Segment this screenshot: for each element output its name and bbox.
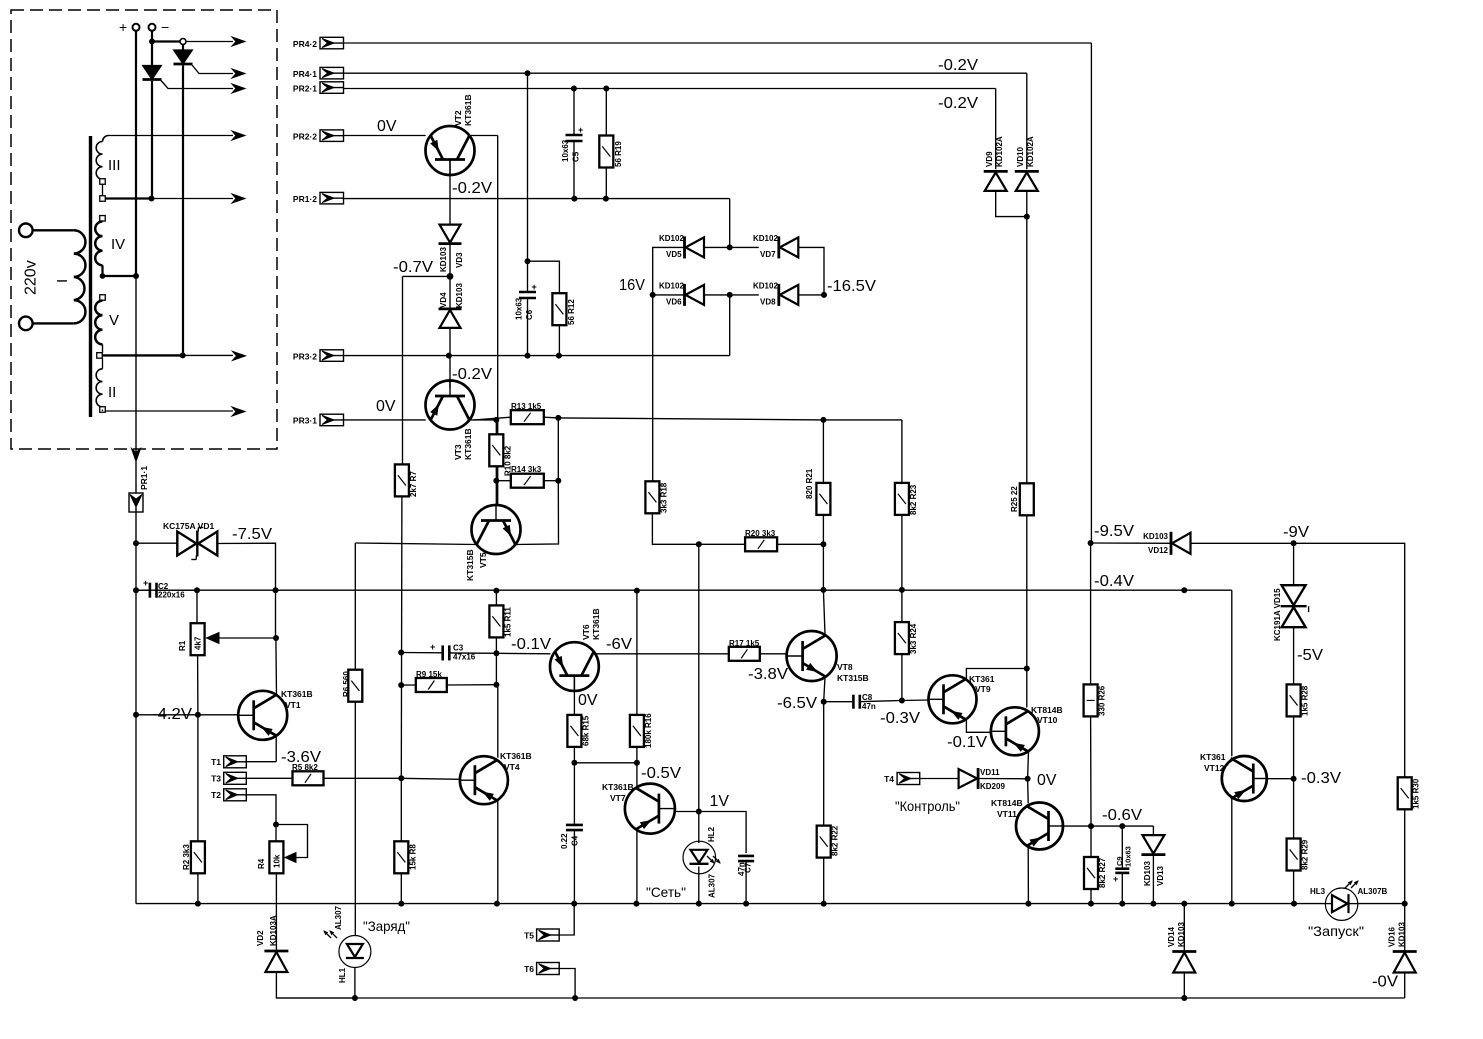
svg-text:KD102: KD102 xyxy=(659,234,684,243)
svg-text:PR1·1: PR1·1 xyxy=(139,466,149,490)
resistor R9 15k xyxy=(416,670,447,692)
svg-text:-0.2V: -0.2V xyxy=(452,180,492,197)
svg-text:KD103: KD103 xyxy=(1143,861,1152,886)
wire VT7 base right xyxy=(675,809,702,815)
main bus xyxy=(136,903,1326,905)
svg-text:AL307: AL307 xyxy=(334,905,343,930)
label Запуск xyxy=(1308,923,1364,939)
svg-text:KT361B: KT361B xyxy=(591,608,601,640)
minus terminal xyxy=(149,19,170,35)
svg-text:10k: 10k xyxy=(273,854,282,868)
diode on second rail xyxy=(174,45,193,65)
transistor VT9 KT361 xyxy=(929,674,995,723)
wire T5 xyxy=(559,904,574,935)
diode VD10 KD102A xyxy=(1015,136,1039,191)
bus dots xyxy=(133,587,1187,594)
svg-text:KT361: KT361 xyxy=(1200,752,1226,762)
wire R13R14 column xyxy=(557,418,559,481)
wire T2 wire xyxy=(246,795,279,828)
label -5V xyxy=(1297,647,1323,664)
svg-text:+: + xyxy=(430,642,435,652)
wire diode1 down xyxy=(151,81,153,199)
svg-text:0V: 0V xyxy=(377,118,397,135)
svg-text:IV: IV xyxy=(111,236,125,253)
svg-text:+: + xyxy=(143,578,148,588)
wire PR4:1 row xyxy=(344,70,1027,76)
svg-text:VD8: VD8 xyxy=(760,298,776,307)
winding IV xyxy=(95,216,105,276)
svg-text:4k7: 4k7 xyxy=(194,636,203,650)
wire VT11 base right row xyxy=(1063,823,1153,829)
svg-text:-6.5V: -6.5V xyxy=(777,695,817,712)
svg-text:KD102: KD102 xyxy=(753,234,778,243)
wire C4 column xyxy=(573,763,575,825)
label -3.6V xyxy=(281,749,321,766)
arrow into PR1:1 xyxy=(132,449,141,462)
svg-text:10x63: 10x63 xyxy=(561,139,570,162)
wire C8 row xyxy=(824,701,902,702)
winding III xyxy=(96,136,108,196)
svg-text:VT4: VT4 xyxy=(504,762,520,772)
label -0.2V VT2 xyxy=(452,180,492,197)
svg-text:8k2 R22: 8k2 R22 xyxy=(831,825,840,856)
wire HL2 column xyxy=(698,812,700,844)
transistor VT8 KT315B xyxy=(787,631,869,683)
svg-text:330 R26: 330 R26 xyxy=(1098,685,1107,716)
svg-text:"Запуск": "Запуск" xyxy=(1308,923,1364,939)
svg-text:VT5: VT5 xyxy=(478,552,488,568)
wire VD2 bottom corner xyxy=(276,972,355,998)
wire VD3 to node xyxy=(447,245,454,280)
label Сеть xyxy=(646,884,686,900)
connector T5 xyxy=(524,929,559,941)
wire row 420 corner R23 xyxy=(823,419,902,421)
svg-text:8k2 R23: 8k2 R23 xyxy=(909,484,918,515)
svg-text:-0.1V: -0.1V xyxy=(511,636,551,653)
wire -9V corner right xyxy=(1294,543,1405,777)
connector PR4:2 xyxy=(293,37,344,49)
svg-text:VD16: VD16 xyxy=(1388,926,1397,947)
svg-text:PR3·1: PR3·1 xyxy=(293,416,317,426)
wire VD5 anode branch xyxy=(653,247,685,295)
resistor R15 68k xyxy=(567,715,590,766)
wire PR1:2 corner down xyxy=(729,199,731,248)
wire R18R20 to VT7base column xyxy=(698,544,700,811)
wire winding III top to PR2:2 arrow xyxy=(109,131,246,140)
svg-text:-0.6V: -0.6V xyxy=(1102,807,1142,824)
svg-text:VD9: VD9 xyxy=(985,151,994,167)
wire VT2 collector column xyxy=(497,136,499,506)
wire C2 row xyxy=(136,589,197,591)
label -0.1V VT10 xyxy=(947,734,987,751)
transistor VT5 KT315B xyxy=(465,505,521,581)
svg-text:T1: T1 xyxy=(211,757,221,767)
diode VD16 KD103 xyxy=(1388,904,1417,973)
wire VD14 bottom xyxy=(1183,973,1185,999)
wire VT5 collector left xyxy=(355,543,477,545)
svg-text:1k5 R28: 1k5 R28 xyxy=(1301,685,1310,716)
wire R14 row xyxy=(496,478,561,484)
svg-text:R9 15k: R9 15k xyxy=(416,670,442,679)
wire VD10 junction down xyxy=(1026,192,1028,483)
wire VT4 emitter down xyxy=(497,800,499,904)
wire bus corner to VT12 xyxy=(1231,590,1233,756)
label -3.8V xyxy=(748,666,788,683)
svg-text:KD103: KD103 xyxy=(1177,922,1186,947)
wire VT7 collector xyxy=(636,763,638,788)
transistor VT7 KT361B xyxy=(602,782,675,834)
wire C5 leads xyxy=(573,89,575,199)
wire winding V bottom row to PR3:2 arrow xyxy=(97,351,246,360)
svg-text:R2 3k3: R2 3k3 xyxy=(182,844,191,870)
wire VT9 emitter to VT10 base xyxy=(966,718,991,732)
svg-text:KD102: KD102 xyxy=(659,282,684,291)
svg-text:KT361B: KT361B xyxy=(463,94,473,126)
svg-text:10x63: 10x63 xyxy=(515,297,524,320)
wire C3 row xyxy=(401,652,496,655)
svg-text:C6: C6 xyxy=(525,309,534,320)
resistor R20 3k3 xyxy=(745,529,777,551)
diode VD12 KD103 xyxy=(1143,532,1190,555)
diode VD6 KD102 xyxy=(659,282,704,307)
wire VD13 bottom xyxy=(1152,856,1154,904)
primary terminal upper xyxy=(19,224,74,238)
svg-text:820 R21: 820 R21 xyxy=(805,468,814,499)
wire R10 bottom xyxy=(493,466,499,505)
label V xyxy=(109,312,119,329)
R4 wiper loop xyxy=(276,825,308,863)
svg-text:10x63: 10x63 xyxy=(1124,846,1133,867)
connector PR1:1 xyxy=(129,462,149,513)
diode VD14 KD103 xyxy=(1167,904,1196,973)
diode VD5 KD102 xyxy=(659,234,704,259)
node 16V xyxy=(650,292,656,298)
transistor VT6 KT361B xyxy=(550,608,601,691)
svg-text:KD103A: KD103A xyxy=(269,915,278,946)
label -0.2V VT3 xyxy=(452,366,492,383)
svg-text:56 R12: 56 R12 xyxy=(567,299,576,325)
svg-text:PR2·1: PR2·1 xyxy=(293,83,317,93)
wire VD6-VD8 xyxy=(704,292,759,298)
wire PR1:2 row xyxy=(344,196,730,202)
svg-text:PR1·2: PR1·2 xyxy=(293,194,317,204)
wire -9.5V to VD12 xyxy=(1091,542,1171,544)
wire R20 leads xyxy=(699,541,827,547)
svg-text:"Контроль": "Контроль" xyxy=(895,798,960,814)
svg-text:KT814B: KT814B xyxy=(1031,705,1063,715)
primary terminal lower xyxy=(19,317,74,331)
label I xyxy=(54,279,71,283)
svg-text:68k R15: 68k R15 xyxy=(582,715,591,746)
svg-text:-9.5V: -9.5V xyxy=(1094,523,1134,540)
node -9.5V xyxy=(1088,540,1094,546)
wire C4 bottom xyxy=(573,831,575,904)
connector T3 xyxy=(211,772,246,784)
svg-text:R1: R1 xyxy=(178,640,187,651)
svg-text:VD12: VD12 xyxy=(1148,546,1169,555)
svg-text:KD103: KD103 xyxy=(1143,532,1168,541)
svg-text:AL307B: AL307B xyxy=(1358,887,1388,896)
label -7.5V xyxy=(232,526,272,543)
wire + rail lower xyxy=(135,276,137,452)
diode VD9 KD102A xyxy=(984,136,1008,191)
svg-text:-0.5V: -0.5V xyxy=(641,765,681,782)
wire VT11 emitter down xyxy=(1027,847,1029,904)
connector T2 xyxy=(211,789,246,801)
svg-text:T2: T2 xyxy=(211,790,221,800)
wire R5 right xyxy=(324,775,405,781)
wire VD8 to -16.5 node xyxy=(798,292,827,298)
svg-text:I: I xyxy=(54,279,71,283)
LED HL2 AL307 xyxy=(683,826,720,898)
wire VT6 base down xyxy=(573,676,575,715)
plus terminal xyxy=(119,19,140,35)
diode VD4 KD103 xyxy=(439,276,465,328)
svg-text:3k3 R24: 3k3 R24 xyxy=(909,623,918,654)
svg-text:VD2: VD2 xyxy=(256,930,265,946)
svg-text:KD102A: KD102A xyxy=(1026,136,1035,167)
svg-text:-0.2V: -0.2V xyxy=(938,57,978,74)
wire VD1 right corner xyxy=(218,543,276,590)
capacitor C6 10x63 xyxy=(515,282,537,320)
svg-text:KT814B: KT814B xyxy=(991,798,1023,808)
connector PR4:1 xyxy=(293,67,344,79)
R1 wiper arrow xyxy=(207,633,280,644)
label IV xyxy=(111,236,125,253)
wire VD16 bottom xyxy=(1404,973,1406,999)
resistor R19 56 xyxy=(599,89,623,199)
bottom bus right xyxy=(1184,997,1404,999)
svg-text:VT12: VT12 xyxy=(1204,763,1225,773)
resistor R8 15k xyxy=(394,778,417,903)
svg-text:R4: R4 xyxy=(257,858,266,869)
svg-text:T5: T5 xyxy=(524,931,534,941)
svg-text:R13 1k5: R13 1k5 xyxy=(511,402,542,411)
transistor VT10 KT814B xyxy=(991,705,1063,755)
wire VD10 column xyxy=(1026,73,1028,169)
resistor R22 8k2 xyxy=(817,702,840,904)
wire VD9 column xyxy=(995,89,997,170)
svg-text:VT6: VT6 xyxy=(581,624,591,640)
svg-text:HL2: HL2 xyxy=(707,826,716,842)
svg-text:3k3 R18: 3k3 R18 xyxy=(660,482,669,513)
wire R9 row xyxy=(401,682,499,688)
svg-text:VD3: VD3 xyxy=(455,252,464,268)
label -0.3V VT9 xyxy=(880,710,920,727)
wire C6 bottom xyxy=(527,298,529,356)
wire HL3 left lead xyxy=(1326,903,1358,905)
svg-text:C3: C3 xyxy=(453,644,464,653)
wire R7 bottom column xyxy=(398,496,404,778)
label -0V xyxy=(1372,974,1398,991)
wire PR3:2 corner up xyxy=(729,295,731,356)
wire winding II bottom to PR3:1 arrow xyxy=(105,407,245,416)
wire VT12 emitter down xyxy=(1231,799,1233,904)
resistor R11 1k5 xyxy=(489,591,512,657)
svg-text:V: V xyxy=(109,312,119,329)
svg-text:56 R19: 56 R19 xyxy=(614,141,623,167)
connector PR1:2 xyxy=(293,192,344,204)
svg-text:VD13: VD13 xyxy=(1156,865,1165,886)
label 1V xyxy=(710,793,730,810)
label -0.2V row2 xyxy=(938,95,978,112)
svg-text:HL1: HL1 xyxy=(338,967,347,983)
wire - to node xyxy=(149,31,155,45)
svg-text:220x16: 220x16 xyxy=(158,591,185,600)
bus -0.4V xyxy=(136,589,1232,591)
wire PR3:1 row xyxy=(344,419,426,421)
svg-text:VD5: VD5 xyxy=(666,250,682,259)
svg-text:VT2: VT2 xyxy=(453,110,463,126)
svg-text:VT9: VT9 xyxy=(975,684,991,694)
wire R11col between rows xyxy=(495,653,497,684)
resistor R14 3k3 xyxy=(511,465,544,488)
svg-text:-5V: -5V xyxy=(1297,647,1323,664)
capacitor C7 47n xyxy=(737,856,754,876)
svg-text:T4: T4 xyxy=(884,774,894,784)
wire VT8 collector up xyxy=(823,590,825,637)
label -4.2V xyxy=(152,706,192,723)
resistor R28 1k5 xyxy=(1287,684,1310,716)
svg-text:KC191A VD15: KC191A VD15 xyxy=(1273,588,1282,641)
capacitor C3 47x16 xyxy=(430,642,476,662)
svg-text:C5: C5 xyxy=(572,151,581,162)
wire R4 bottom xyxy=(275,873,277,951)
LED HL3 AL307B xyxy=(1310,881,1388,920)
wire -0.3V row xyxy=(902,699,929,702)
resistor R21 820 xyxy=(805,420,830,515)
LED HL1 AL307 xyxy=(324,905,371,983)
connector PR2:2 xyxy=(293,130,344,142)
label -9.5V xyxy=(1094,523,1134,540)
diode VD7 KD102 xyxy=(753,234,798,259)
svg-text:-3.8V: -3.8V xyxy=(748,666,788,683)
transistor VT11 KT814B xyxy=(991,798,1063,850)
wire T4 to VD11 xyxy=(920,778,959,780)
svg-text:220v: 220v xyxy=(23,260,40,295)
label -0.2V row1 xyxy=(938,57,978,74)
resistor R4 10k xyxy=(257,825,283,874)
svg-text:-0.2V: -0.2V xyxy=(938,95,978,112)
svg-text:1k5 R11: 1k5 R11 xyxy=(504,607,513,637)
wire VT11 collector xyxy=(1027,779,1030,804)
label -9V xyxy=(1283,524,1309,541)
wire PR3:2 row xyxy=(344,353,730,359)
connector T6 xyxy=(524,963,559,975)
winding II xyxy=(96,358,105,412)
winding V xyxy=(95,295,105,353)
svg-text:KD103: KD103 xyxy=(455,283,464,308)
wire -0.7V node left xyxy=(403,275,451,277)
svg-text:-0V: -0V xyxy=(1372,974,1398,991)
svg-text:PR3·2: PR3·2 xyxy=(293,351,317,361)
wire VT7 emitter down xyxy=(636,829,638,903)
zener VD15 KC191A xyxy=(1273,543,1309,641)
svg-text:AL307: AL307 xyxy=(708,873,717,898)
wire + rail xyxy=(135,31,137,276)
svg-text:0V: 0V xyxy=(1037,772,1057,789)
svg-text:2k7 R7: 2k7 R7 xyxy=(409,471,418,497)
label -0.1V VT6 xyxy=(511,636,551,653)
wire 1V to C7 xyxy=(699,812,746,854)
svg-text:R25 22: R25 22 xyxy=(1010,486,1019,512)
svg-text:KT361B: KT361B xyxy=(602,782,634,792)
resistor R1 4k7 xyxy=(178,590,205,655)
label -16.5V xyxy=(827,278,876,295)
svg-text:KT361B: KT361B xyxy=(281,689,313,699)
wire R18 bottom corner xyxy=(652,513,701,547)
svg-text:VT10: VT10 xyxy=(1037,715,1058,725)
wire VT1 emitter down xyxy=(275,735,277,761)
resistor R27 8k2 xyxy=(1084,826,1107,904)
svg-text:0V: 0V xyxy=(376,398,396,415)
resistor R2 3k3 xyxy=(182,715,205,904)
svg-text:1k5 R30: 1k5 R30 xyxy=(1412,778,1421,809)
wire VD12 to -9V xyxy=(1191,540,1297,546)
wire VT5 base wire xyxy=(0,0,1,1)
zener VD1 KC175A xyxy=(163,521,217,560)
svg-text:16V: 16V xyxy=(619,277,645,294)
capacitor C5 10x63 xyxy=(561,125,583,162)
wire R28 to -0.3V xyxy=(1291,716,1297,781)
svg-text:KC175A VD1: KC175A VD1 xyxy=(163,521,214,531)
wire diode1 jog to PR2:1 row xyxy=(161,81,233,89)
svg-text:-0.4V: -0.4V xyxy=(1094,573,1134,590)
svg-text:47n: 47n xyxy=(862,702,876,711)
wire VD9 to junction xyxy=(996,192,1030,220)
svg-text:II: II xyxy=(108,384,116,401)
wire VT6 collector row xyxy=(595,653,729,655)
svg-text:180k R16: 180k R16 xyxy=(644,713,653,748)
main bus right part xyxy=(1358,903,1405,905)
svg-text:47x16: 47x16 xyxy=(453,653,476,662)
wire R14col to VT5 emitter xyxy=(515,481,559,545)
wire PR1:1 down xyxy=(135,512,137,543)
svg-text:KT361B: KT361B xyxy=(463,428,473,460)
wire -0.1V -6V row xyxy=(496,652,550,655)
svg-text:-9V: -9V xyxy=(1283,524,1309,541)
wire VD1 node xyxy=(133,540,177,546)
bottom bus xyxy=(276,995,1187,1001)
svg-text:"Сеть": "Сеть" xyxy=(646,884,686,900)
arrow PR4:1 xyxy=(232,69,245,78)
label -0.7V xyxy=(393,259,433,276)
capacitor C2 220x16 xyxy=(143,578,185,600)
svg-text:C7: C7 xyxy=(744,862,753,873)
wire VT9 collector xyxy=(966,666,1029,681)
resistor R10 8k2 xyxy=(489,420,512,476)
svg-text:T6: T6 xyxy=(524,964,534,974)
svg-text:1V: 1V xyxy=(710,793,730,810)
svg-text:KD102: KD102 xyxy=(753,282,778,291)
svg-text:-6V: -6V xyxy=(606,636,632,653)
wire T1 to VT1 emitter xyxy=(246,761,276,763)
resistor R16 180k xyxy=(630,713,653,766)
wire C6 column top xyxy=(525,73,531,292)
connector PR3:1 xyxy=(293,414,344,426)
wire R13 row xyxy=(474,415,561,421)
label -6V xyxy=(606,636,632,653)
svg-text:R6 560: R6 560 xyxy=(342,671,351,697)
wire VD5-VD7 xyxy=(704,244,759,250)
wire VD15 to R28 xyxy=(1293,628,1295,685)
connector T1 xyxy=(211,756,246,768)
svg-text:VD6: VD6 xyxy=(666,298,682,307)
wire diode2 jog to PR4:1 row xyxy=(192,65,233,74)
svg-text:R5 8k2: R5 8k2 xyxy=(292,763,318,772)
svg-text:+: + xyxy=(1113,874,1118,884)
label 0V VT6 xyxy=(578,692,598,709)
